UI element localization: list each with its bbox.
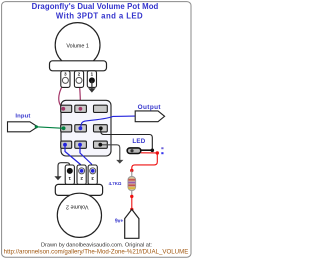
switch SW1 3PDT body	[61, 100, 111, 156]
resistor R1 4.7K	[128, 171, 136, 197]
SW1 lug row3 col2	[75, 141, 87, 148]
junction dot row2 col2 (blue)	[79, 126, 83, 130]
VR1 pin 2 lug	[74, 71, 83, 88]
polarity mark plus	[161, 147, 163, 149]
junction dot 9v apex (red)	[130, 208, 133, 211]
junction dot row1 col1 (crimson)	[61, 107, 65, 111]
junction dot row2 col1 (green)	[62, 126, 66, 130]
polarity mark minus	[161, 152, 163, 154]
SW1 lug row3 col1	[61, 141, 72, 148]
SW1 lug row2 col1	[61, 125, 72, 132]
junction dot row3 col2 (blue)	[78, 143, 82, 147]
svg-text:Input: Input	[15, 114, 30, 120]
ground arrow at VR1 pin 1	[88, 80, 95, 92]
svg-text:Dragonfly's Dual Volume Pot Mo: Dragonfly's Dual Volume Pot Mod	[32, 2, 159, 11]
wire SW1 row2 col2 to Output (blue)	[81, 116, 136, 128]
ground arrow at SW1 row3 col3	[116, 160, 123, 164]
junction dot row1 col2 (crimson)	[79, 107, 83, 111]
SW1 lug row1 col2	[75, 105, 87, 112]
wire VR1 pin2 to SW1 row1 col2 (crimson)	[79, 81, 81, 109]
SW1 lug row1 col3	[94, 105, 108, 112]
wire VR1 pin3 to SW1 row1 col1 (crimson)	[59, 81, 66, 109]
wire SW1 row2 col3 to LED anode (black)	[101, 128, 153, 150]
VR1 pin 1 lug	[87, 71, 96, 88]
SW1 lug row2 col2	[75, 125, 87, 132]
svg-text:http://aronnelson.com/gallery/: http://aronnelson.com/gallery/The-Mod-Zo…	[4, 249, 189, 256]
VR2 pin 1 lug	[65, 165, 74, 185]
potentiometer VR1 Volume 1	[50, 23, 107, 71]
junction dot input tip (green)	[35, 125, 38, 128]
svg-text:Volume 2: Volume 2	[66, 204, 88, 210]
wire SW1 row3 col3 to ground (black)	[100, 145, 120, 160]
junction dot row2 col3 (black)	[99, 126, 103, 130]
VR1 pin 3 lug	[61, 71, 70, 88]
LED D1	[127, 148, 152, 154]
svg-text:LED: LED	[132, 138, 145, 145]
SW1 lug row2 col3	[94, 125, 108, 132]
svg-text:4.7KΩ: 4.7KΩ	[109, 181, 122, 186]
wire SW1 row3 col1 to VR2 pin2 (blue)	[65, 145, 82, 171]
SW1 lug row1 col1	[61, 105, 72, 112]
junction dot resistor bottom (red)	[130, 195, 133, 198]
LED cathode lead (red)	[141, 152, 158, 154]
junction dot LED anode (black)	[151, 149, 155, 153]
SW1 lug row3 col3	[94, 141, 108, 148]
svg-text:With 3PDT and a LED: With 3PDT and a LED	[56, 12, 143, 21]
junction dot row3 col1 (blue)	[63, 143, 67, 147]
VR2 pin 2 lug	[77, 165, 86, 185]
input jack tag	[8, 114, 38, 132]
svg-text:Volume 1: Volume 1	[66, 43, 88, 49]
wire SW1 row3 col2 to VR2 pin3 (blue)	[80, 145, 93, 171]
junction dot row3 col3 (black)	[98, 143, 102, 147]
wire LED cathode to resistor R1 (red)	[132, 153, 158, 170]
svg-text:Output: Output	[138, 104, 162, 111]
output jack tag	[135, 104, 164, 122]
wire Input to SW1 row2 col1 (green)	[36, 127, 63, 129]
9v+ power tag	[125, 209, 139, 238]
junction dot LED cathode (red)	[156, 151, 159, 154]
ground arrow at VR2 pin 1	[54, 163, 69, 181]
junction dot resistor top (red)	[130, 169, 133, 172]
VR2 pin 3 lug	[88, 165, 97, 185]
potentiometer VR2 Volume 2	[55, 184, 102, 237]
wire resistor R1 to 9v+ tag (red)	[131, 196, 133, 209]
svg-text:9v+: 9v+	[115, 219, 124, 225]
